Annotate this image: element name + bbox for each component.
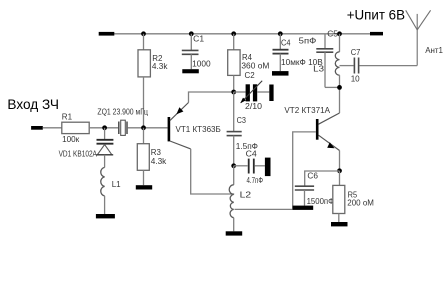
svg-text:10: 10 [351, 74, 360, 84]
svg-text:C4: C4 [281, 38, 291, 48]
node emitter/R4/C2/C3 junction [231, 90, 236, 95]
svg-text:360 oМ: 360 oМ [241, 60, 269, 70]
svg-text:4.3k: 4.3k [151, 156, 167, 166]
antenna Ант1 [406, 10, 431, 65]
svg-text:L3: L3 [313, 63, 324, 73]
svg-text:200 oM: 200 oM [347, 197, 374, 207]
node C3/C4/L2 junction [231, 163, 236, 168]
wire top power rail [99, 33, 383, 35]
node rail C1 [189, 31, 194, 36]
capacitor C6 [305, 171, 340, 186]
svg-text:ZQ1 23.900 мГц: ZQ1 23.900 мГц [97, 108, 148, 117]
svg-text:4.3k: 4.3k [152, 61, 168, 71]
svg-text:+Uпит 6В: +Uпит 6В [347, 6, 405, 22]
svg-text:L2: L2 [240, 190, 252, 200]
terminal bar top-left rail start [99, 32, 115, 36]
inductor L2 [233, 166, 235, 185]
wire crystal to base junction [128, 127, 168, 129]
wire input to R1 [43, 127, 62, 129]
inductor L1 [101, 167, 105, 196]
svg-text:1500пФ: 1500пФ [307, 196, 335, 206]
ground below L2 [226, 231, 243, 235]
terminal bar +Uпит 6В [370, 32, 383, 36]
svg-text:Ант1: Ант1 [425, 45, 443, 55]
wire R1 to crystal [89, 127, 118, 129]
svg-text:VT1 КТ363Б: VT1 КТ363Б [176, 124, 222, 134]
transistor VT1 KT363B [168, 117, 171, 141]
svg-text:2/10: 2/10 [245, 101, 262, 111]
node rail R4 [231, 31, 236, 36]
svg-text:C2: C2 [245, 70, 255, 80]
capacitor C3 [233, 92, 235, 131]
resistor R2 [143, 34, 145, 50]
ground below C6 [293, 206, 314, 210]
node VT2 emitter junction [337, 168, 342, 173]
terminal bar C4 right stub [265, 158, 271, 177]
wire C7 to antenna [359, 65, 417, 67]
svg-text:L1: L1 [112, 179, 121, 189]
svg-text:Вход ЗЧ: Вход ЗЧ [7, 96, 59, 112]
node rail R2 [141, 31, 146, 36]
svg-text:VD1 KB102А: VD1 KB102А [59, 149, 98, 159]
ground below L1 [96, 214, 115, 218]
resistor R3 [143, 128, 145, 144]
inductor L3 [339, 34, 341, 52]
resistor R4 [233, 34, 235, 50]
node base junction R2/R3 [141, 125, 146, 130]
terminal bar input [31, 126, 43, 130]
ground below C1 [182, 69, 199, 73]
svg-text:C1: C1 [193, 34, 204, 44]
capacitor C5 [324, 34, 326, 49]
svg-text:C6: C6 [307, 171, 318, 181]
svg-text:C4: C4 [246, 148, 257, 158]
ground below R5 [331, 222, 348, 226]
varicap VD1 KB102A [104, 128, 106, 139]
svg-text:C7: C7 [351, 47, 361, 57]
ground below R3 [136, 185, 152, 189]
svg-text:C5: C5 [327, 29, 338, 39]
capacitor C1 [190, 34, 192, 50]
svg-text:1000: 1000 [192, 58, 211, 68]
transistor VT2 KT371A [316, 119, 319, 140]
capacitor C4 10мкФ [279, 34, 281, 50]
svg-text:C3: C3 [237, 115, 247, 125]
node R1/VD1 junction [102, 125, 107, 130]
crystal ZQ1 23.900 мГц [118, 122, 120, 135]
svg-text:VT2 КТ371А: VT2 КТ371А [284, 105, 330, 115]
trimmer arrow C2 [241, 81, 262, 103]
svg-text:4.7пФ: 4.7пФ [247, 175, 264, 185]
svg-text:5пФ: 5пФ [299, 36, 317, 46]
resistor R5 [339, 171, 341, 186]
svg-text:R1: R1 [62, 112, 73, 122]
node rail C4 [278, 31, 283, 36]
ground below C4 10мкФ [272, 71, 289, 76]
terminal bar C2 right stub [269, 85, 273, 102]
resistor R1 [62, 122, 89, 133]
trimmer capacitor C2 [234, 91, 246, 93]
node C5/L3 bottom junction [337, 85, 342, 90]
node rail L3 [337, 31, 342, 36]
wire VD1 to L1 [104, 155, 106, 168]
capacitor C4 4.7пФ [234, 165, 248, 167]
capacitor C7 [340, 65, 354, 67]
svg-text:100к: 100к [62, 134, 79, 144]
wire VT2 base to L2 tap [235, 132, 316, 210]
